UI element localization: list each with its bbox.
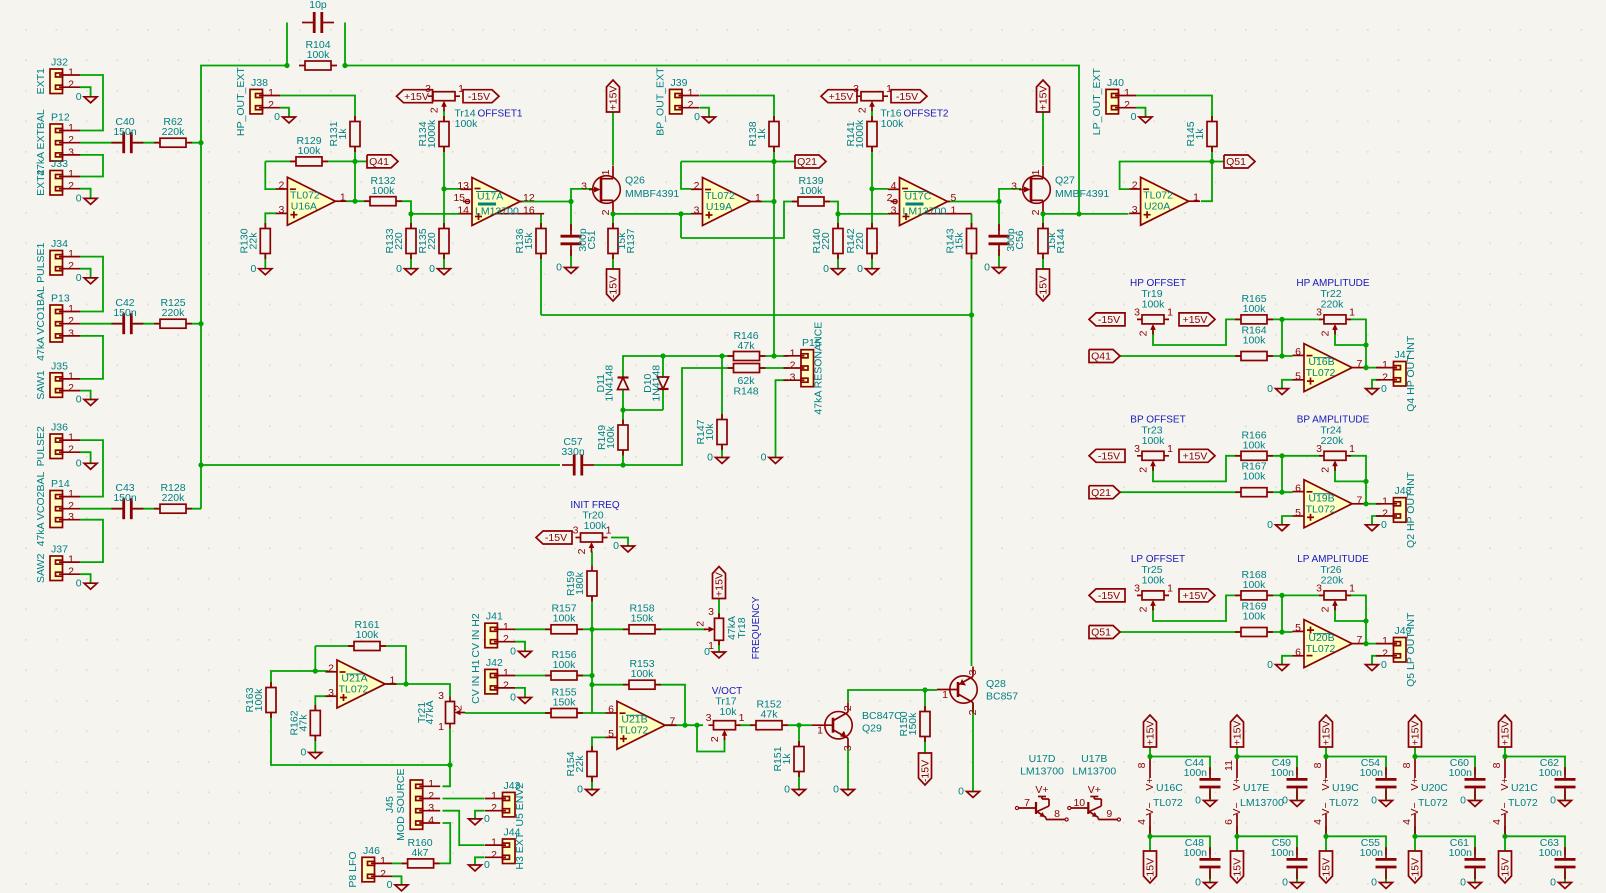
svg-text:0: 0: [1550, 795, 1556, 807]
svg-text:0: 0: [761, 452, 767, 464]
junction 38: [1363, 342, 1368, 347]
svg-text:U5 ENV2: U5 ENV2: [514, 783, 526, 827]
wire Q28 emitter riser: [971, 315, 973, 666]
junction 41: [1279, 490, 1284, 495]
resistor R155 150k: [545, 687, 583, 718]
svg-text:1: 1: [600, 169, 612, 175]
svg-text:P13: P13: [51, 293, 70, 305]
wire J38.1 to R131 top: [280, 96, 355, 122]
connector J44 H3 EXT: [485, 827, 526, 870]
wire R149 leg: [622, 450, 624, 465]
wire J36.2 to gnd: [80, 452, 91, 463]
connector J32 EXT1: [35, 57, 80, 95]
wire Tr21 to J45.1: [443, 729, 451, 787]
power +15V: [1179, 589, 1215, 602]
svg-text:220k: 220k: [162, 492, 186, 504]
trimmer Tr21 47kA: [416, 690, 465, 733]
junction 56: [1502, 754, 1507, 759]
wire C51 node up to Q26 gate: [571, 189, 596, 202]
wire R16x to Tr2x: [1267, 594, 1322, 596]
wire R133 gnd: [410, 253, 412, 269]
svg-text:0: 0: [694, 111, 700, 123]
svg-text:TL072: TL072: [619, 725, 649, 737]
junction 4: [198, 462, 203, 467]
transistor Q29 BC847C: [812, 702, 854, 751]
connector J41 CV IN H2: [470, 611, 515, 658]
power -15V: [1089, 449, 1125, 462]
svg-text:100k: 100k: [605, 425, 617, 449]
ground J34: [76, 272, 97, 284]
capacitor C50 100n: [1286, 847, 1308, 879]
svg-text:0: 0: [784, 784, 790, 796]
svg-text:330n: 330n: [561, 446, 585, 458]
svg-text:0: 0: [1282, 795, 1288, 807]
svg-text:100k: 100k: [307, 49, 331, 61]
wire R145 bottom: [1211, 147, 1213, 162]
power +15V: [1037, 80, 1050, 112]
resistor R141 1000k: [845, 116, 877, 152]
power -15V: [1320, 851, 1333, 883]
capacitor C44 100n: [1199, 767, 1221, 799]
wire out to J4x: [1364, 367, 1382, 369]
wire 10p cap left leg: [286, 23, 288, 66]
wire J34.2 to gnd: [80, 269, 91, 278]
wire cap2 gnd lead: [1209, 870, 1211, 882]
svg-text:0: 0: [76, 458, 82, 470]
svg-text:V+: V+: [1409, 777, 1421, 790]
svg-text:3: 3: [708, 606, 714, 618]
svg-text:10p: 10p: [309, 0, 327, 11]
power -15V: [463, 90, 499, 103]
wire U19A fb loop top: [681, 161, 774, 163]
svg-text:1: 1: [1382, 359, 1388, 371]
op-amp U20A: [1129, 177, 1200, 225]
wire U17A pin16 to R136: [540, 214, 542, 229]
svg-text:150k: 150k: [631, 613, 655, 625]
wire cap2 gnd lead: [1564, 870, 1566, 882]
wire J42.2 gnd: [514, 688, 525, 698]
wire riser to input row: [1281, 319, 1283, 356]
capacitor C56 300p: [988, 224, 1026, 256]
svg-text:LM13700: LM13700: [1020, 766, 1064, 778]
wire U17C pin1 to R143: [971, 214, 973, 229]
svg-text:3: 3: [425, 83, 431, 95]
svg-text:47kA VCO2BAL: 47kA VCO2BAL: [35, 471, 47, 546]
svg-text:0: 0: [387, 879, 393, 891]
svg-text:1: 1: [606, 525, 612, 537]
wire R161 to out riser: [380, 646, 406, 684]
wire R146 to P15.1: [760, 355, 789, 357]
svg-text:3: 3: [279, 204, 285, 216]
svg-text:0: 0: [823, 263, 829, 275]
svg-text:100k: 100k: [1142, 299, 1166, 311]
wire D11 bottom lead: [622, 390, 624, 411]
op-amp U16C power pins: [1136, 757, 1183, 837]
resistor R154 22k: [565, 746, 597, 782]
svg-text:1: 1: [1124, 87, 1130, 99]
svg-text:0: 0: [704, 646, 710, 658]
svg-text:2: 2: [1382, 647, 1388, 659]
ground Tr18: [704, 646, 725, 658]
junction 55: [1412, 834, 1417, 839]
resistor R137 15k: [608, 223, 637, 259]
junction 42: [1363, 479, 1368, 484]
junction 51: [1234, 834, 1239, 839]
svg-text:4k7: 4k7: [412, 847, 429, 859]
capacitor C63 100n: [1554, 847, 1576, 879]
capacitor C61 100n: [1464, 847, 1486, 879]
svg-text:V+: V+: [1320, 777, 1332, 790]
svg-text:J37: J37: [51, 544, 68, 556]
wire R142 leg: [871, 189, 873, 229]
resistor R132 100k: [364, 175, 402, 206]
svg-text:0: 0: [1381, 383, 1387, 395]
svg-text:10: 10: [1073, 797, 1085, 809]
svg-text:+15V: +15V: [1183, 451, 1208, 463]
capacitor C57 330n: [561, 436, 594, 476]
svg-text:0: 0: [1267, 519, 1273, 531]
ground C48: [1195, 877, 1216, 889]
power -15V: [1089, 313, 1125, 326]
svg-text:100n: 100n: [1449, 847, 1473, 859]
resistor R131 1k: [328, 116, 360, 152]
svg-text:U21C: U21C: [1511, 782, 1538, 794]
wire Q26 drain to +15V: [612, 112, 614, 165]
svg-text:2: 2: [453, 705, 465, 711]
wire U21B pin5 to R154: [592, 737, 606, 751]
svg-text:U20C: U20C: [1421, 782, 1448, 794]
ground J47 pin2: [1366, 383, 1388, 395]
wire Vplus to cap: [1505, 747, 1565, 775]
svg-text:1: 1: [268, 87, 274, 99]
wire U16A pin3 to R130: [265, 213, 276, 229]
trimmer Tr24 220k BP AMPLITUDE: [1316, 443, 1355, 473]
wire R152 to R151 node: [782, 724, 799, 726]
svg-text:Q51: Q51: [1226, 156, 1246, 168]
wire R135 leg: [443, 189, 445, 229]
svg-text:-15V: -15V: [545, 532, 567, 544]
svg-text:J40: J40: [1107, 77, 1124, 89]
svg-text:0: 0: [1381, 519, 1387, 531]
op-amp U17C (OTA LM13700): [887, 178, 972, 226]
svg-text:U19A: U19A: [706, 201, 732, 213]
svg-text:1: 1: [380, 855, 386, 867]
svg-text:+15V: +15V: [608, 86, 620, 111]
svg-text:220k: 220k: [1321, 435, 1345, 447]
svg-text:3: 3: [1316, 582, 1322, 594]
capacitor 10p: [302, 12, 334, 34]
svg-text:47kA RESONANCE: 47kA RESONANCE: [813, 322, 825, 415]
junction 30: [796, 723, 801, 728]
svg-text:1: 1: [755, 192, 761, 204]
wire R132 to sum node: [396, 201, 411, 214]
svg-text:1N4148: 1N4148: [604, 365, 616, 402]
connector P15 47kA RESONANCE: [784, 322, 825, 415]
wire riser to input row: [1281, 456, 1283, 492]
power +15V: [1409, 715, 1422, 747]
wire Q27 drain to +15V: [1042, 112, 1044, 165]
svg-text:4: 4: [1136, 819, 1148, 825]
svg-text:0: 0: [1371, 795, 1377, 807]
svg-text:3: 3: [891, 205, 897, 217]
svg-text:1: 1: [1193, 192, 1199, 204]
svg-text:2: 2: [600, 209, 612, 215]
svg-text:4: 4: [891, 180, 897, 192]
svg-text:10k: 10k: [720, 706, 738, 718]
ground U16B pin: [1267, 383, 1288, 395]
svg-text:PULSE2: PULSE2: [35, 426, 47, 466]
junction 37: [1279, 353, 1284, 358]
wire J35.2 to gnd: [80, 391, 91, 400]
svg-text:Q29: Q29: [862, 723, 882, 735]
svg-text:6: 6: [1223, 819, 1235, 825]
svg-text:Q28: Q28: [986, 678, 1006, 690]
ground C63: [1550, 877, 1571, 889]
svg-text:V−: V−: [1231, 802, 1243, 815]
svg-text:0: 0: [1460, 795, 1466, 807]
wire input row: [1120, 631, 1293, 633]
svg-text:2: 2: [491, 849, 497, 861]
svg-text:6: 6: [1295, 346, 1301, 358]
transistor U17B (LM13700 buffer): [1068, 753, 1121, 821]
svg-text:7: 7: [1024, 797, 1030, 809]
capacitor C42 150n: [112, 297, 144, 335]
svg-text:-15V: -15V: [1232, 858, 1244, 880]
svg-text:16: 16: [523, 205, 535, 217]
power -15V: [919, 753, 932, 785]
resistor R168 100k: [1235, 569, 1273, 600]
wire gnd pin wire: [1282, 380, 1293, 389]
connector J34 PULSE1: [35, 238, 80, 283]
wire Q28 base link: [925, 689, 937, 691]
svg-text:1000k: 1000k: [426, 119, 438, 148]
wire node to U17C pin3: [838, 213, 888, 215]
svg-text:TL072: TL072: [1306, 503, 1336, 515]
svg-text:3: 3: [1316, 443, 1322, 455]
resistor R147 10k: [695, 414, 727, 450]
resistor R156 100k: [545, 649, 583, 680]
resistor R140 220: [811, 223, 843, 259]
svg-text:2: 2: [429, 107, 441, 113]
svg-text:Q27: Q27: [1055, 175, 1075, 187]
junction 35: [1209, 159, 1214, 164]
power +15V: [1179, 313, 1215, 326]
wire Vplus to cap: [1150, 747, 1210, 775]
resistor R166 100k: [1235, 429, 1273, 460]
svg-text:4: 4: [1401, 819, 1413, 825]
svg-text:FREQUENCY: FREQUENCY: [751, 596, 762, 659]
svg-text:TL072: TL072: [1329, 797, 1359, 809]
svg-text:8: 8: [1312, 762, 1324, 768]
svg-text:6: 6: [1295, 647, 1301, 659]
svg-text:TL072: TL072: [1418, 797, 1448, 809]
svg-text:0: 0: [613, 540, 619, 552]
svg-text:2: 2: [1320, 606, 1332, 612]
svg-text:7: 7: [1357, 634, 1363, 646]
wire Vminus to cap: [1326, 826, 1386, 855]
resistor R161 100k: [348, 619, 386, 651]
capacitor C40 150n: [112, 116, 144, 154]
svg-text:J34: J34: [51, 238, 68, 250]
power -15V: [1231, 851, 1244, 883]
trimmer Tr20 100k INIT FREQ: [573, 525, 612, 555]
wire R131 bottom to Q41 node: [354, 147, 356, 161]
svg-text:2: 2: [68, 382, 74, 394]
svg-text:1: 1: [951, 205, 957, 217]
svg-text:HP_OUT_EXT: HP_OUT_EXT: [235, 67, 247, 136]
wire cap gnd lead: [1296, 790, 1298, 800]
svg-text:1: 1: [1030, 169, 1042, 175]
svg-text:0: 0: [1371, 877, 1377, 889]
svg-text:V+: V+: [1144, 777, 1156, 790]
wire node to Q29 base: [799, 724, 812, 726]
svg-text:100n: 100n: [1271, 767, 1295, 779]
svg-text:V−: V−: [1320, 802, 1332, 815]
svg-text:0: 0: [1282, 877, 1288, 889]
svg-text:LM13700: LM13700: [903, 206, 947, 218]
wire R151 hang: [798, 725, 800, 746]
svg-text:3: 3: [842, 745, 854, 751]
power -15V: [1089, 589, 1125, 602]
op-amp U21B: [606, 701, 677, 749]
wire C57 to D node: [594, 464, 623, 466]
svg-text:0: 0: [300, 747, 306, 759]
svg-text:Q26: Q26: [625, 175, 645, 187]
capacitor C48 100n: [1199, 847, 1221, 879]
svg-text:2: 2: [428, 790, 434, 802]
junction 12: [771, 159, 776, 164]
wire fb corner to pin2: [265, 161, 276, 189]
wire amp trim wiper: [1335, 467, 1366, 482]
wire bus to R158: [592, 628, 629, 630]
svg-text:Q2 HP OUT INT: Q2 HP OUT INT: [1405, 471, 1417, 548]
wire Q29 collector up: [848, 690, 925, 702]
connector J45 MOD SOURCE: [384, 768, 440, 840]
svg-text:2: 2: [503, 679, 509, 691]
power +15V: [1231, 715, 1244, 747]
resistor R158 150k: [623, 603, 661, 634]
wire Vminus tag lead: [1149, 836, 1151, 851]
ground C49: [1282, 795, 1303, 807]
svg-text:2: 2: [790, 360, 796, 372]
svg-text:100k: 100k: [1142, 575, 1166, 587]
junction 6: [352, 199, 357, 204]
ground R162: [300, 747, 321, 759]
wire R143 to LP bus: [971, 253, 973, 315]
svg-text:4: 4: [428, 815, 434, 827]
connector J47 Q4 HP OUT INT: [1376, 335, 1417, 412]
svg-text:J39: J39: [671, 77, 688, 89]
wire J40.1 to R145 top: [1136, 96, 1212, 122]
resistor R164 100k: [1235, 325, 1273, 361]
svg-text:9: 9: [1106, 808, 1112, 820]
svg-text:5: 5: [608, 728, 614, 740]
ground Tr20: [613, 540, 634, 552]
resistor R129 100k: [290, 135, 328, 166]
connector J46 P8 LFO: [347, 845, 392, 888]
svg-text:7: 7: [1357, 494, 1363, 506]
svg-text:100k: 100k: [455, 118, 479, 130]
ground R133: [396, 263, 417, 275]
wire R129 feedback row: [265, 160, 296, 162]
svg-text:100k: 100k: [1243, 335, 1267, 347]
wire amp trim pin1: [1348, 595, 1366, 643]
svg-text:2: 2: [887, 192, 893, 204]
wire 10p cap right leg: [344, 23, 346, 66]
svg-text:220k: 220k: [162, 307, 186, 319]
resistor R144 15k: [1038, 223, 1067, 259]
wire trim wiper path: [1153, 319, 1241, 345]
svg-text:2: 2: [68, 315, 74, 327]
svg-text:2: 2: [68, 134, 74, 146]
svg-text:U16C: U16C: [1156, 782, 1183, 794]
svg-text:Q4 HP OUT INT: Q4 HP OUT INT: [1405, 335, 1417, 412]
hier label Q21: [1089, 486, 1120, 499]
connector J49 Q5 LP OUT INT: [1376, 612, 1417, 687]
svg-text:3: 3: [1134, 306, 1140, 318]
svg-text:3: 3: [1132, 204, 1138, 216]
wire source row to pin3: [681, 213, 691, 215]
resistor R125 220k: [154, 297, 192, 328]
svg-text:Q5 LP OUT INT: Q5 LP OUT INT: [1405, 612, 1417, 687]
svg-text:BP_OUT_EXT: BP_OUT_EXT: [655, 67, 667, 136]
svg-text:Q21: Q21: [1091, 487, 1111, 499]
svg-text:+15V: +15V: [1183, 590, 1208, 602]
svg-text:1000k: 1000k: [854, 119, 866, 148]
svg-text:5: 5: [1295, 507, 1301, 519]
svg-text:100k: 100k: [1243, 579, 1267, 591]
ground J37: [76, 577, 97, 589]
ground C54: [1371, 795, 1392, 807]
wire U17A out to C51 node: [520, 201, 571, 203]
svg-text:11: 11: [1223, 760, 1235, 771]
junction 54: [1412, 754, 1417, 759]
svg-text:EXT2: EXT2: [35, 169, 47, 195]
svg-text:2: 2: [503, 633, 509, 645]
svg-text:100k: 100k: [553, 613, 577, 625]
svg-text:U19C: U19C: [1332, 782, 1359, 794]
wire C51 to gnd: [570, 249, 572, 268]
wire R130 to gnd: [264, 253, 266, 269]
junction 48: [1147, 754, 1152, 759]
svg-text:2: 2: [1124, 99, 1130, 111]
svg-text:P12: P12: [51, 112, 70, 124]
svg-text:+15V: +15V: [1321, 721, 1333, 746]
wire J33.2 to gnd: [80, 189, 91, 199]
power -15V: [1037, 269, 1050, 301]
wire R151 gnd: [798, 772, 800, 790]
wire input row: [1120, 491, 1293, 493]
svg-text:0: 0: [76, 577, 82, 589]
svg-text:-15V: -15V: [1098, 451, 1120, 463]
wire R140 hang: [837, 214, 839, 229]
svg-text:P14: P14: [51, 478, 70, 490]
svg-text:3: 3: [1134, 443, 1140, 455]
svg-text:1: 1: [503, 667, 509, 679]
ground R154: [577, 784, 598, 796]
op-amp U20C power pins: [1401, 757, 1448, 837]
wire R133 hang: [410, 214, 412, 229]
capacitor C49 100n: [1286, 767, 1308, 799]
wire D10 top lead: [662, 356, 664, 377]
svg-text:8: 8: [1491, 762, 1503, 768]
wire Q21 node to tag: [774, 161, 795, 163]
resistor R135 220: [417, 223, 449, 259]
svg-text:5: 5: [1295, 371, 1301, 383]
wire J41.1 to R157: [514, 628, 551, 630]
wire trim wiper path: [1153, 595, 1241, 621]
svg-text:J42: J42: [486, 657, 503, 669]
